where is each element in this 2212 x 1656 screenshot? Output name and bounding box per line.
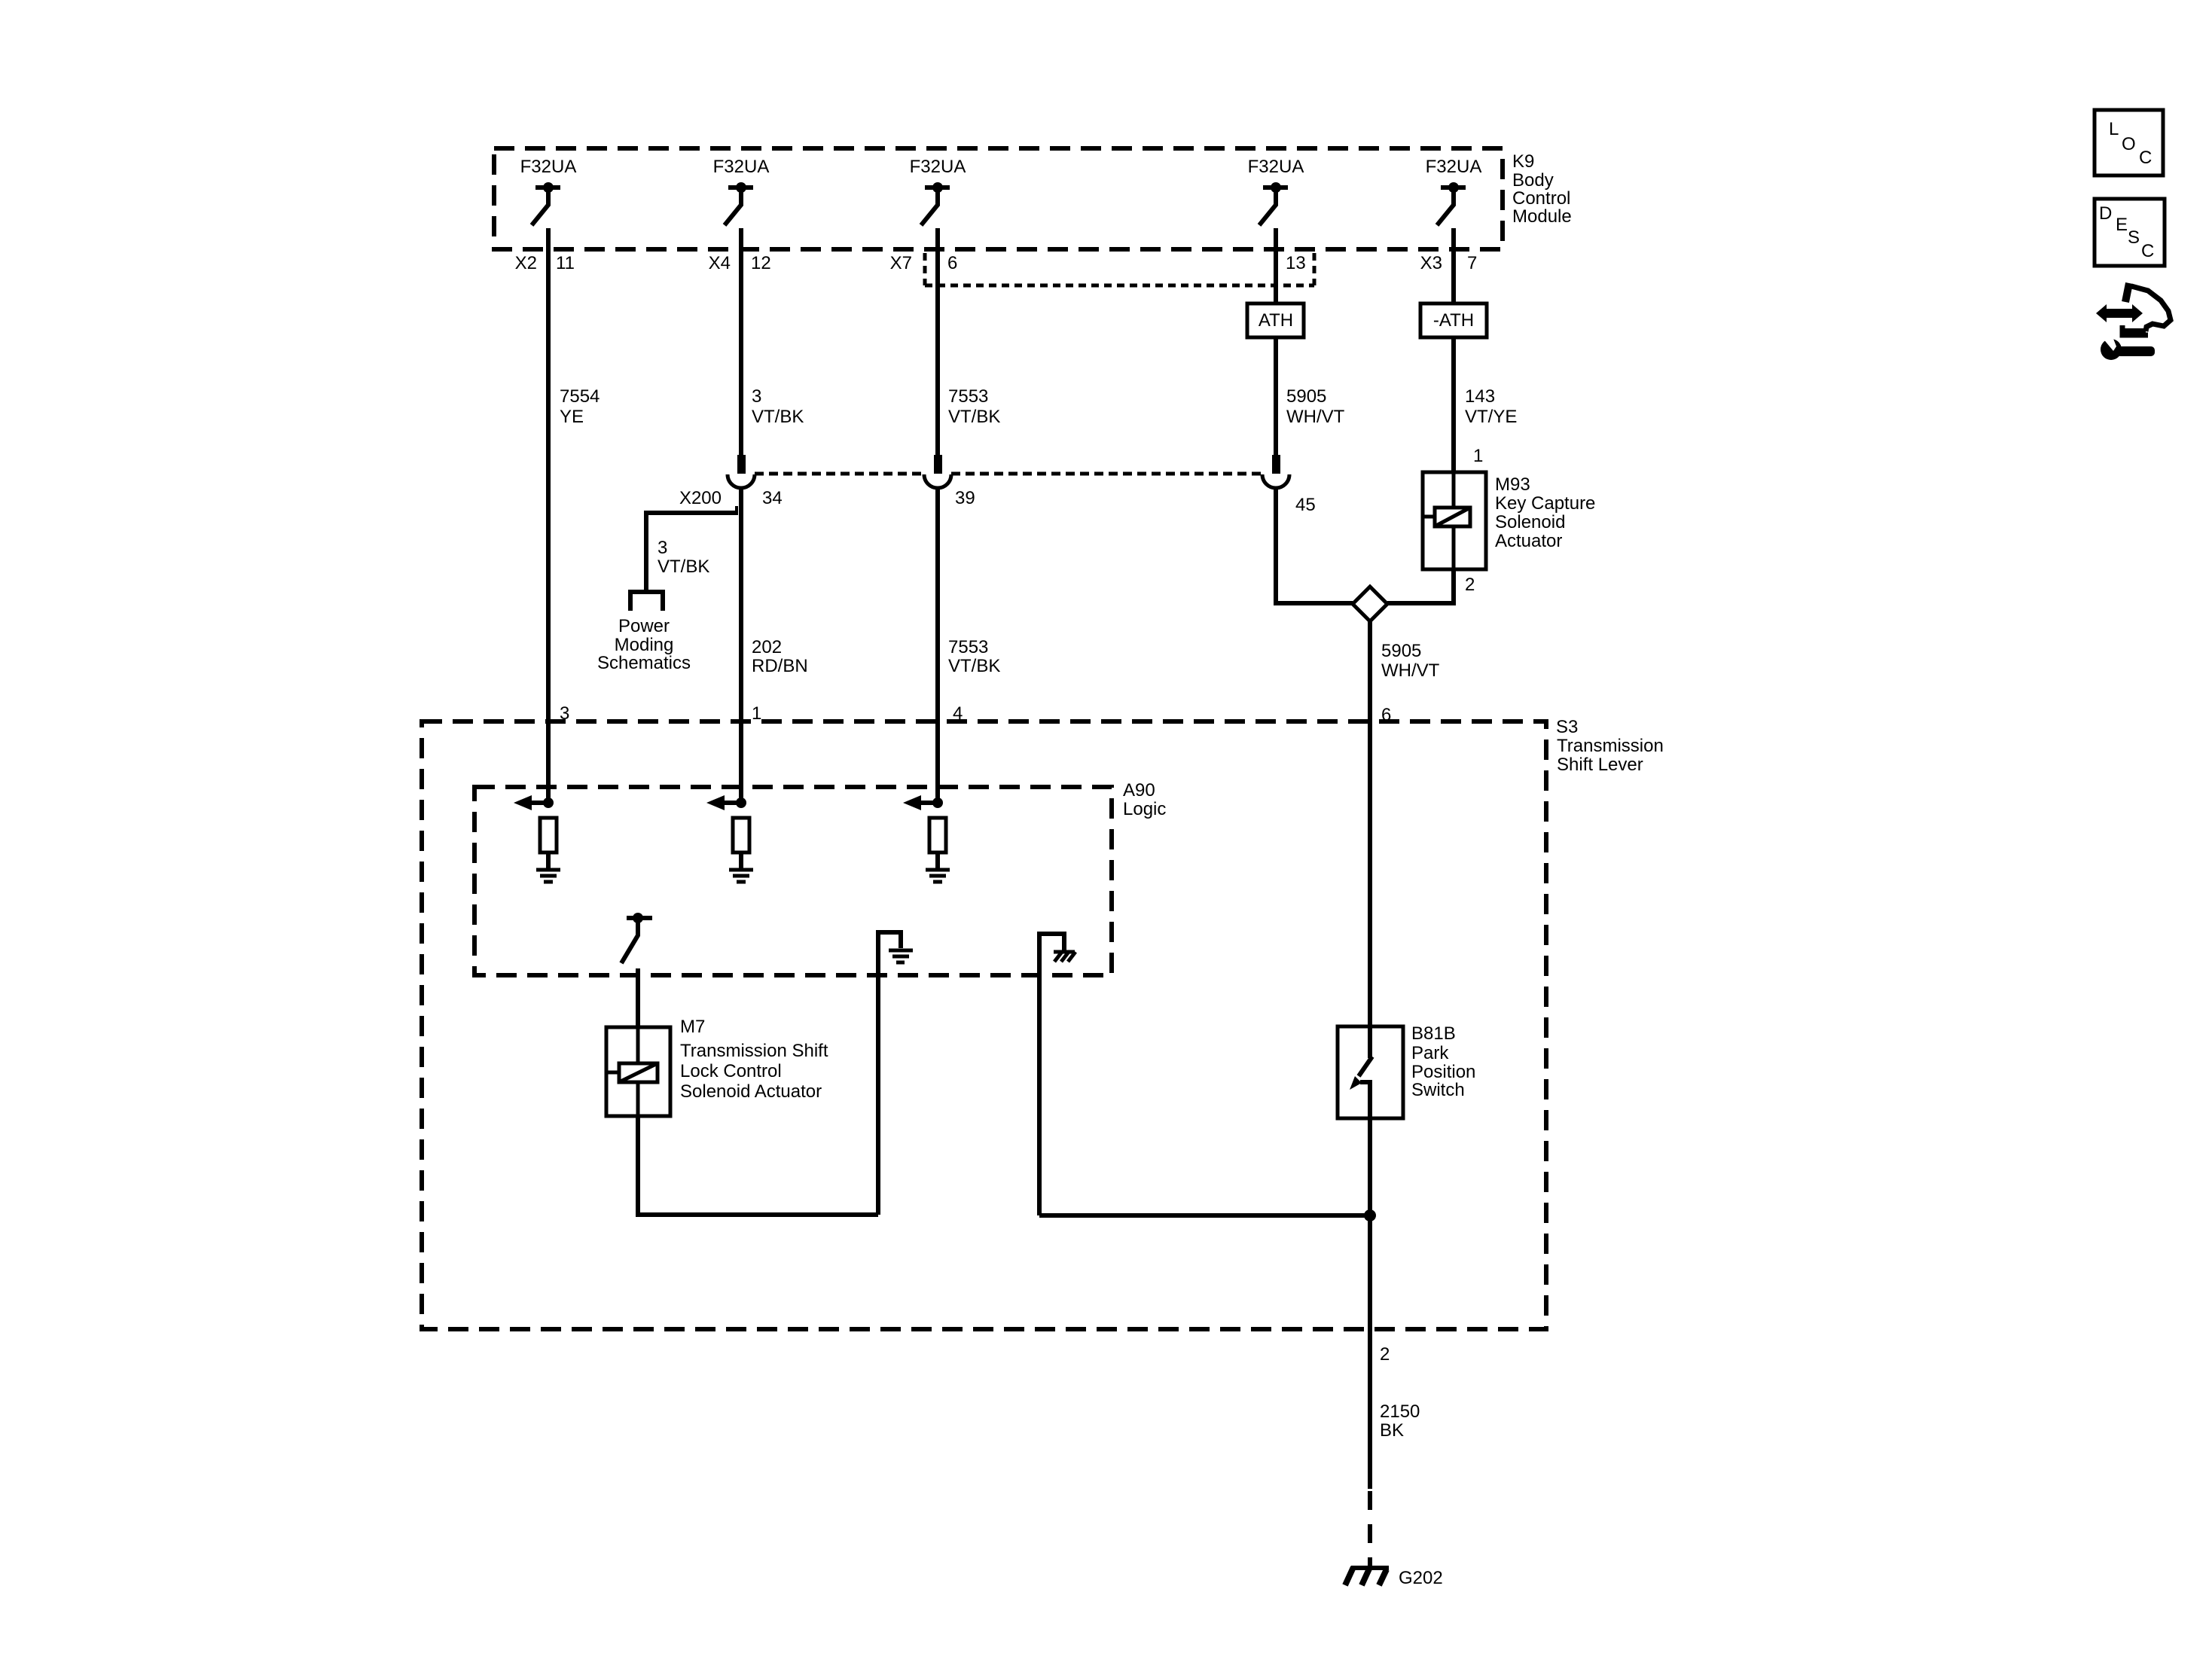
wire 4 below ATH bbox=[1274, 337, 1278, 455]
wire label 3 VT/BK (branch) bbox=[657, 538, 709, 577]
wire 4 vertical (5905 WH/VT upper) bbox=[1274, 228, 1278, 303]
legend box DESC bbox=[2095, 199, 2165, 266]
wire label 5905 WH/VT (lower) bbox=[1381, 641, 1440, 681]
pin X4 12 bbox=[709, 253, 771, 273]
dashed wire to G202 bbox=[1368, 1491, 1372, 1566]
svg-text:M93: M93 bbox=[1495, 474, 1530, 495]
wire 5 below M93 to corner bbox=[1387, 569, 1454, 603]
svg-text:1: 1 bbox=[752, 703, 761, 724]
svg-text:Transmission: Transmission bbox=[1557, 736, 1664, 756]
wire R1 to ground bbox=[546, 852, 551, 870]
switch F32UA 4 bbox=[1259, 182, 1288, 225]
svg-text:7553: 7553 bbox=[948, 386, 988, 407]
svg-text:3: 3 bbox=[752, 386, 761, 407]
svg-text:Key Capture: Key Capture bbox=[1495, 493, 1595, 514]
ground return 1 (A90 right) bbox=[878, 932, 913, 1215]
resistor R1 bbox=[540, 818, 557, 852]
resistor R2 bbox=[733, 818, 749, 852]
svg-text:C: C bbox=[2141, 241, 2154, 261]
svg-text:45: 45 bbox=[1295, 495, 1316, 515]
svg-text:B81B: B81B bbox=[1411, 1023, 1456, 1044]
svg-text:F32UA: F32UA bbox=[713, 157, 770, 177]
wire R2 to ground bbox=[739, 852, 743, 870]
svg-text:Solenoid Actuator: Solenoid Actuator bbox=[680, 1081, 822, 1102]
wire chassis ground 2 to junction bbox=[1039, 1213, 1370, 1218]
svg-text:11: 11 bbox=[556, 253, 575, 273]
svg-text:YE: YE bbox=[560, 407, 584, 427]
svg-text:34: 34 bbox=[762, 488, 783, 508]
svg-text:ATH: ATH bbox=[1259, 310, 1293, 331]
wire M7 to ground return 1 bbox=[638, 1116, 878, 1215]
svg-text:143: 143 bbox=[1465, 386, 1495, 407]
wire label 2150 BK bbox=[1380, 1401, 1420, 1441]
svg-text:E: E bbox=[2116, 215, 2128, 235]
svg-text:F32UA: F32UA bbox=[1248, 157, 1304, 177]
module K9 Body Control Module (dashed box) bbox=[494, 148, 1572, 249]
box ATH bbox=[1247, 303, 1304, 337]
ground 2 bbox=[729, 870, 753, 882]
svg-text:A90: A90 bbox=[1123, 780, 1155, 801]
switch F32UA 2 bbox=[725, 182, 753, 225]
svg-text:7554: 7554 bbox=[560, 386, 600, 407]
wire 3 vertical (7553 VT/BK upper) bbox=[935, 228, 940, 455]
svg-text:O: O bbox=[2122, 134, 2136, 154]
svg-text:12: 12 bbox=[751, 253, 771, 273]
solenoid M7 Transmission Shift Lock Control Solenoid Actuator bbox=[606, 1017, 828, 1116]
svg-text:M7: M7 bbox=[680, 1017, 705, 1037]
svg-text:G202: G202 bbox=[1399, 1568, 1443, 1588]
pin X2 11 bbox=[515, 253, 575, 273]
node arrow 2 bbox=[706, 795, 746, 810]
wire R3 to ground bbox=[935, 852, 940, 870]
svg-text:5905: 5905 bbox=[1286, 386, 1326, 407]
svg-text:202: 202 bbox=[752, 637, 782, 657]
svg-text:VT/BK: VT/BK bbox=[948, 656, 1000, 676]
module S3 Transmission Shift Lever (dashed box) bbox=[422, 717, 1664, 1329]
ground 1 bbox=[536, 870, 560, 882]
switch B81B Park Position Switch bbox=[1338, 1023, 1475, 1118]
pin X3 7 bbox=[1420, 253, 1478, 273]
wire A90 switch to M7 bbox=[636, 968, 640, 1027]
wire 2 vertical (3 VT/BK upper) bbox=[739, 228, 743, 455]
wire 2 below splice (202 RD/BN) bbox=[739, 486, 743, 803]
svg-text:3: 3 bbox=[657, 538, 667, 558]
svg-text:VT/BK: VT/BK bbox=[657, 557, 709, 577]
legend box LOC bbox=[2095, 110, 2163, 175]
connector X7 dotted outline bbox=[925, 253, 1314, 285]
wire 3 below splice (7553 VT/BK) bbox=[935, 486, 940, 803]
svg-text:VT/BK: VT/BK bbox=[948, 407, 1000, 427]
svg-text:X2: X2 bbox=[515, 253, 537, 273]
wire 5 below -ATH bbox=[1451, 337, 1456, 472]
inline connector X200 pin 34 bbox=[679, 455, 783, 508]
svg-text:F32UA: F32UA bbox=[910, 157, 966, 177]
svg-text:RD/BN: RD/BN bbox=[752, 656, 808, 676]
wire label 202 RD/BN bbox=[752, 637, 808, 676]
chassis ground return 2 (A90 right) bbox=[1039, 934, 1075, 1215]
svg-text:C: C bbox=[2139, 148, 2152, 168]
node arrow 3 bbox=[903, 795, 943, 810]
ground G202 bbox=[1345, 1567, 1443, 1588]
svg-text:2150: 2150 bbox=[1380, 1401, 1420, 1422]
svg-text:X4: X4 bbox=[709, 253, 731, 273]
svg-text:F32UA: F32UA bbox=[1426, 157, 1482, 177]
svg-text:Actuator: Actuator bbox=[1495, 531, 1562, 551]
svg-text:K9: K9 bbox=[1512, 151, 1534, 172]
box -ATH bbox=[1420, 303, 1487, 337]
wire label 7553 VT/BK bbox=[948, 386, 1000, 427]
svg-text:1: 1 bbox=[1473, 446, 1483, 466]
svg-text:X3: X3 bbox=[1420, 253, 1442, 273]
svg-text:7: 7 bbox=[1467, 253, 1477, 273]
svg-text:-ATH: -ATH bbox=[1433, 310, 1474, 331]
branch X200 to power moding bbox=[646, 506, 738, 592]
svg-text:2: 2 bbox=[1380, 1344, 1390, 1365]
svg-text:VT/YE: VT/YE bbox=[1465, 407, 1517, 427]
node arrow 1 bbox=[514, 795, 554, 810]
svg-text:Body: Body bbox=[1512, 170, 1554, 191]
svg-text:S3: S3 bbox=[1556, 717, 1578, 737]
inline connector pin 39 bbox=[924, 455, 975, 508]
svg-text:Position: Position bbox=[1411, 1062, 1475, 1082]
splice dotted line bbox=[755, 472, 1262, 476]
svg-text:D: D bbox=[2099, 203, 2112, 224]
wire 4 below splice to corner bbox=[1276, 486, 1353, 603]
svg-text:F32UA: F32UA bbox=[520, 157, 577, 177]
svg-text:Power: Power bbox=[618, 616, 670, 636]
splice diamond bbox=[1353, 587, 1387, 621]
ground 3 bbox=[926, 870, 950, 882]
svg-text:Shift Lever: Shift Lever bbox=[1557, 755, 1643, 775]
svg-text:X7: X7 bbox=[890, 253, 912, 273]
wire B81B to pin 2 bbox=[1368, 1118, 1372, 1489]
svg-text:7553: 7553 bbox=[948, 637, 988, 657]
solenoid M93 Key Capture Solenoid Actuator bbox=[1423, 472, 1595, 569]
svg-text:VT/BK: VT/BK bbox=[752, 407, 804, 427]
svg-text:WH/VT: WH/VT bbox=[1381, 660, 1440, 681]
svg-text:2: 2 bbox=[1465, 575, 1475, 595]
svg-text:39: 39 bbox=[955, 488, 975, 508]
switch F32UA 1 bbox=[532, 182, 560, 225]
module A90 Logic (dashed box) bbox=[474, 780, 1166, 975]
svg-text:5905: 5905 bbox=[1381, 641, 1421, 661]
switch F32UA 5 bbox=[1437, 182, 1466, 225]
off-page connector (Power Moding Schematics) bbox=[597, 592, 691, 673]
svg-text:WH/VT: WH/VT bbox=[1286, 407, 1345, 427]
svg-text:Schematics: Schematics bbox=[597, 653, 691, 673]
junction node bbox=[1364, 1209, 1376, 1221]
wire label 7553 VT/BK (lower) bbox=[948, 637, 1000, 676]
svg-text:6: 6 bbox=[947, 253, 957, 273]
svg-text:Switch: Switch bbox=[1411, 1080, 1465, 1100]
wire 5 vertical (143 VT/YE upper) bbox=[1451, 228, 1456, 303]
svg-text:Logic: Logic bbox=[1123, 799, 1166, 819]
icon double arrow with wrench bbox=[2096, 283, 2171, 360]
wire 5905 below diamond bbox=[1368, 621, 1372, 1026]
wire 1 vertical (7554 YE) bbox=[546, 228, 551, 803]
resistor R3 bbox=[929, 818, 946, 852]
svg-text:Moding: Moding bbox=[615, 635, 674, 655]
svg-text:Module: Module bbox=[1512, 206, 1572, 227]
wire label 5905 WH/VT bbox=[1286, 386, 1345, 427]
wire label 143 VT/YE bbox=[1465, 386, 1517, 427]
svg-text:Transmission Shift: Transmission Shift bbox=[680, 1041, 828, 1061]
svg-text:BK: BK bbox=[1380, 1420, 1404, 1441]
svg-text:X200: X200 bbox=[679, 488, 722, 508]
svg-text:Control: Control bbox=[1512, 188, 1570, 209]
svg-text:L: L bbox=[2109, 119, 2119, 139]
svg-text:13: 13 bbox=[1286, 253, 1306, 273]
svg-text:Lock Control: Lock Control bbox=[680, 1061, 782, 1081]
svg-text:S: S bbox=[2128, 227, 2140, 248]
inline connector pin 45 bbox=[1262, 455, 1316, 515]
switch F32UA 3 bbox=[921, 182, 950, 225]
pin X7 6 bbox=[890, 253, 958, 273]
svg-text:Solenoid: Solenoid bbox=[1495, 512, 1565, 532]
svg-text:Park: Park bbox=[1411, 1043, 1449, 1063]
switch A90 internal bbox=[621, 913, 652, 963]
wire label 7554 YE bbox=[560, 386, 600, 427]
wire label 3 VT/BK bbox=[752, 386, 804, 427]
